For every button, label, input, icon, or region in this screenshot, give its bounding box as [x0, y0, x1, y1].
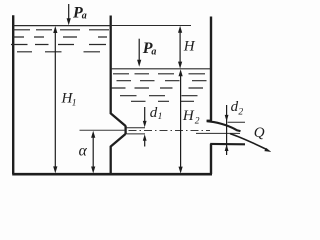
bottom wall of both tanks — [12, 173, 212, 176]
hatch row 1 right tank — [113, 73, 205, 75]
d2 dimension arrows — [225, 105, 229, 155]
svg-text:Q: Q — [254, 125, 265, 141]
svg-text:1: 1 — [158, 112, 163, 122]
water surface right tank — [111, 68, 210, 70]
right tank wall upper part — [210, 17, 212, 121]
surface level extension line to H arrow — [111, 25, 191, 27]
hatch row 3 right tank — [112, 87, 204, 89]
d1 lower reference line — [126, 133, 145, 135]
svg-text:2: 2 — [195, 116, 200, 126]
centerline dash-dot through nozzle to outlet — [129, 130, 211, 132]
svg-text:α: α — [79, 143, 88, 160]
outlet upper lip curve — [207, 121, 241, 131]
svg-text:H: H — [182, 108, 195, 124]
svg-text:1: 1 — [72, 98, 77, 108]
Pa arrow left tank — [67, 4, 71, 25]
svg-text:a: a — [82, 10, 87, 21]
left tank wall — [12, 15, 14, 174]
hatch row 5 right tank — [131, 100, 194, 102]
svg-text:2: 2 — [238, 107, 243, 117]
d1 upper reference line — [126, 127, 145, 129]
Pa arrow right tank — [137, 39, 141, 67]
hatch row 3 left tank — [11, 44, 106, 46]
H1 dimension line — [53, 26, 57, 173]
hatch row 1 left tank — [11, 30, 207, 102]
outlet lower reference line — [196, 132, 240, 134]
middle dividing wall with venturi nozzle — [111, 16, 126, 175]
d2 upper reference line — [228, 121, 245, 123]
outlet lower lip line — [210, 143, 245, 146]
H dimension line — [178, 26, 182, 69]
water surface left tank — [13, 25, 111, 27]
hatch row 2 right tank — [117, 80, 207, 82]
svg-text:d: d — [150, 105, 158, 121]
alpha dimension line — [91, 131, 95, 174]
hatch row 2 left tank — [13, 36, 107, 38]
d1 dimension arrows — [143, 107, 147, 147]
hatch row 4 left tank — [17, 51, 100, 53]
centerline left of nozzle (alpha reference) — [80, 129, 125, 131]
outlet upper lip jog — [207, 120, 212, 122]
right tank wall lower part — [210, 144, 212, 174]
hatch row 4 right tank — [120, 95, 198, 97]
svg-text:a: a — [151, 47, 156, 58]
Q flow curved arrow — [230, 134, 271, 152]
svg-text:H: H — [183, 38, 196, 54]
H2 dimension line — [179, 69, 183, 173]
svg-text:d: d — [231, 99, 239, 115]
